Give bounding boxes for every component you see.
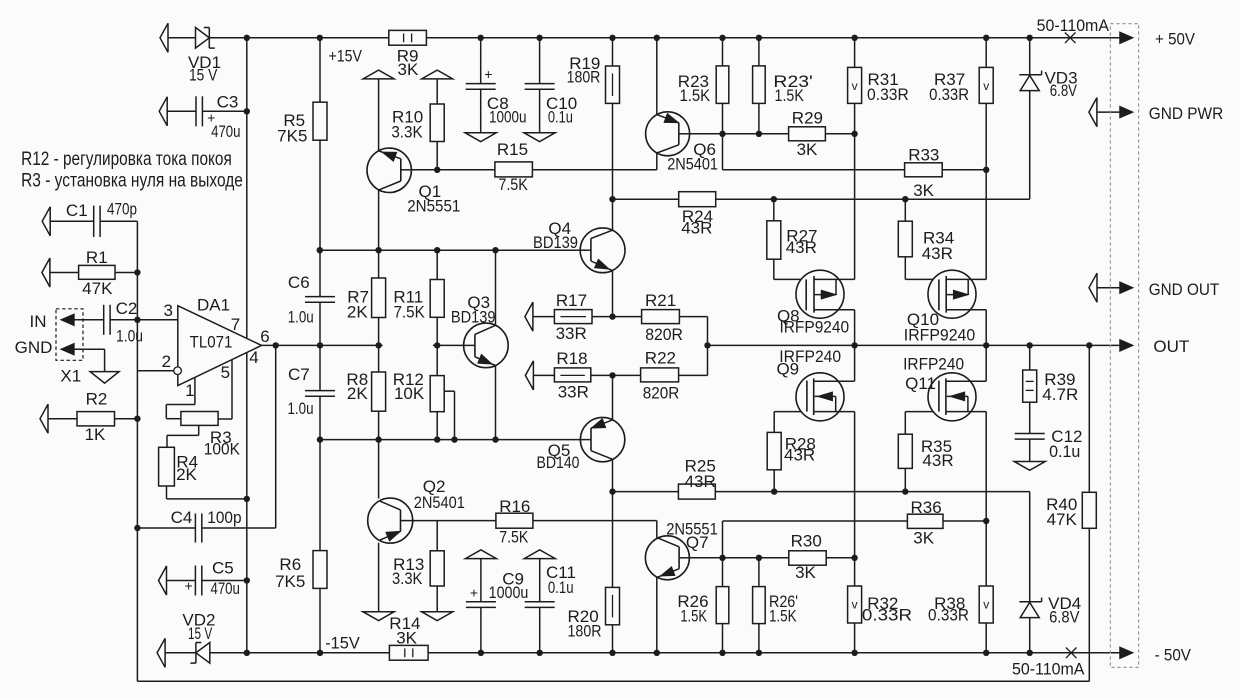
svg-text:v: v bbox=[852, 598, 858, 612]
junction dots bbox=[244, 35, 250, 41]
svg-text:7.5K: 7.5K bbox=[499, 527, 529, 546]
resistor R30 3K bbox=[789, 551, 826, 565]
wire: Q6 base down to gate drive line bbox=[722, 134, 724, 170]
ground symbol input bbox=[90, 372, 119, 384]
resistor R13 3.3K bbox=[430, 551, 444, 586]
transistor Q7 2N5551 bbox=[645, 536, 689, 580]
diode VD1 15V zener bbox=[196, 28, 210, 49]
resistor R16 7.5K bbox=[496, 513, 533, 528]
svg-text:DA1: DA1 bbox=[197, 295, 230, 314]
svg-text:1.5K: 1.5K bbox=[679, 86, 710, 105]
svg-text:470u: 470u bbox=[210, 579, 240, 598]
wire: R31 column to Q8 source bbox=[854, 38, 856, 68]
wire: R26p column bbox=[758, 558, 760, 587]
svg-text:7K5: 7K5 bbox=[277, 126, 307, 145]
svg-text:R18: R18 bbox=[556, 349, 587, 368]
wire: Q7 emitter to rail bbox=[656, 577, 658, 652]
wire: C8 column bbox=[480, 38, 482, 84]
connector arrow GND bbox=[62, 344, 74, 355]
wire: C1 row bbox=[50, 220, 94, 222]
wire: R13 column bbox=[436, 521, 438, 551]
resistor R38 0.33R bbox=[979, 586, 993, 623]
capacitor C11 0.1u bbox=[525, 601, 555, 603]
connector dashed box right bbox=[1110, 24, 1138, 668]
power arrow -15V at Q2 bbox=[363, 612, 394, 621]
capacitor C7 1.0u bbox=[305, 390, 335, 392]
wire: C4 to output bbox=[275, 345, 277, 528]
resistor R1 47K bbox=[79, 265, 115, 279]
svg-text:15 V: 15 V bbox=[188, 624, 213, 643]
resistor R39 4.7R bbox=[1023, 370, 1037, 402]
svg-text:3K: 3K bbox=[398, 60, 419, 79]
resistor R34 43R bbox=[898, 221, 912, 257]
svg-text:3.3K: 3.3K bbox=[392, 569, 423, 588]
svg-text:+: + bbox=[484, 66, 492, 82]
connector arrow OUT bbox=[1120, 340, 1132, 351]
svg-text:2K: 2K bbox=[347, 384, 368, 403]
ground arrow C12 bbox=[1014, 462, 1045, 471]
resistor R14 3K bbox=[389, 645, 428, 660]
svg-text:-15V: -15V bbox=[325, 633, 360, 652]
connector arrow C5 input bbox=[159, 566, 167, 595]
capacitor C6 1.0u bbox=[305, 296, 335, 298]
svg-text:v: v bbox=[983, 598, 989, 612]
svg-text:470u: 470u bbox=[211, 122, 240, 141]
resistor R9 3K bbox=[389, 30, 427, 45]
resistor R23 1.5K bbox=[716, 66, 729, 104]
svg-text:R29: R29 bbox=[792, 109, 823, 128]
wire: Q9 source to R30/R32 bbox=[854, 412, 856, 586]
svg-text:43R: 43R bbox=[786, 238, 817, 257]
wire: R37 column to Q10 source bbox=[985, 38, 987, 68]
wire: Q1 collector / R7 column bbox=[378, 190, 380, 278]
connector arrow GND PWR solid bbox=[1120, 107, 1132, 118]
resistor R22 820R bbox=[641, 368, 679, 382]
svg-text:1.0u: 1.0u bbox=[288, 399, 314, 418]
resistor R3 100K trimmer bbox=[181, 412, 218, 426]
svg-text:43R: 43R bbox=[922, 244, 953, 263]
wire: op-amp output rail bbox=[262, 344, 383, 346]
wire: R18 row bbox=[533, 374, 554, 376]
wire: feedback frame bottom and sides bbox=[136, 221, 138, 681]
svg-text:2: 2 bbox=[162, 352, 171, 371]
resistor R11 7.5K bbox=[430, 280, 444, 318]
capacitor C4 100p bbox=[194, 513, 196, 542]
svg-text:3K: 3K bbox=[797, 140, 818, 159]
resistor R25 43R bbox=[678, 484, 715, 499]
connector arrow VD2 input bbox=[157, 638, 165, 667]
svg-text:R1: R1 bbox=[86, 248, 108, 267]
test point X bottom rail bbox=[1066, 648, 1077, 659]
svg-text:43R: 43R bbox=[922, 451, 953, 470]
svg-text:43R: 43R bbox=[681, 219, 712, 238]
svg-text:0.1u: 0.1u bbox=[548, 578, 574, 597]
wire: IN to C2 to pin3 bbox=[74, 319, 104, 321]
svg-text:820R: 820R bbox=[645, 325, 683, 344]
power arrow C9 bbox=[465, 550, 496, 559]
transistor Q9 IRFP240 bbox=[796, 373, 844, 421]
wire: Q7 base row bbox=[690, 557, 789, 559]
svg-text:50-110mA: 50-110mA bbox=[1037, 16, 1110, 35]
transistor Q10 IRFP9240 bbox=[928, 270, 976, 318]
ground arrow C10 bbox=[524, 133, 555, 142]
svg-text:1: 1 bbox=[185, 381, 194, 400]
wire: Q11 drain to OUT bbox=[985, 345, 987, 381]
svg-text:820R: 820R bbox=[643, 383, 680, 402]
resistor R21 820R bbox=[642, 310, 680, 324]
wire: C10 column bbox=[539, 38, 541, 84]
capacitor C5 470u bbox=[194, 566, 196, 596]
power arrow +15V at Q1 bbox=[363, 70, 394, 79]
wire: R40 column bbox=[1088, 345, 1090, 492]
resistor R2 1K bbox=[77, 412, 115, 426]
wire: Q6 base row bbox=[690, 133, 789, 135]
svg-text:+: + bbox=[185, 578, 193, 594]
wire: bottom gate rail bbox=[613, 491, 679, 493]
svg-text:2N5401: 2N5401 bbox=[667, 154, 718, 173]
svg-text:BD140: BD140 bbox=[537, 453, 580, 472]
wire: power arrow stem to R10 bbox=[436, 79, 438, 104]
wire: R17 row bbox=[533, 316, 555, 318]
capacitor C1 470p bbox=[93, 206, 95, 237]
wire: R5-C6-C7-R6 vertical bbox=[319, 38, 321, 102]
connector arrow C1 input bbox=[42, 207, 50, 236]
wire: R11/R12 junction to Q3 base bbox=[433, 344, 464, 346]
connector arrow GND OUT open bbox=[1089, 273, 1097, 302]
wire: VD4 column bbox=[1029, 492, 1031, 602]
svg-text:33R: 33R bbox=[556, 324, 587, 343]
svg-text:v: v bbox=[852, 79, 858, 93]
svg-text:C5: C5 bbox=[212, 559, 234, 578]
wire: R22 row to output node bbox=[613, 374, 641, 376]
wire: Q2 base to R16 bbox=[401, 520, 496, 522]
wire: C4 row bbox=[137, 527, 195, 529]
svg-text:R22: R22 bbox=[645, 348, 676, 367]
resistor R29 3K bbox=[789, 127, 826, 141]
svg-text:R15: R15 bbox=[497, 140, 528, 159]
svg-text:100K: 100K bbox=[204, 440, 241, 459]
svg-text:+15V: +15V bbox=[328, 47, 362, 66]
svg-text:1.5K: 1.5K bbox=[775, 86, 805, 105]
connector arrow IN bbox=[62, 314, 74, 325]
svg-text:R30: R30 bbox=[791, 532, 822, 551]
capacitor C3 470u bbox=[195, 96, 197, 126]
wire: R10 to Q1 base node bbox=[436, 142, 438, 170]
svg-text:0.1u: 0.1u bbox=[548, 108, 573, 127]
svg-text:+: + bbox=[470, 584, 478, 600]
svg-text:GND OUT: GND OUT bbox=[1149, 280, 1220, 299]
svg-text:6: 6 bbox=[260, 327, 269, 346]
resistor R23p 1.5K bbox=[753, 66, 766, 104]
connector X1 dashed box bbox=[56, 309, 83, 361]
wire: C3 row bbox=[167, 110, 196, 112]
capacitor C2 1.0u bbox=[103, 305, 105, 335]
svg-text:4.7R: 4.7R bbox=[1042, 385, 1078, 404]
svg-text:R16: R16 bbox=[499, 497, 530, 516]
resistor R20 180R bbox=[606, 587, 620, 624]
transistor Q3 BD139 bbox=[464, 323, 509, 368]
diode VD3 6.8V zener bbox=[1019, 74, 1041, 76]
svg-text:0.33R: 0.33R bbox=[867, 85, 909, 104]
transistor Q6 2N5401 bbox=[646, 112, 690, 156]
svg-text:1.0u: 1.0u bbox=[116, 326, 143, 345]
svg-text:GND: GND bbox=[15, 338, 53, 357]
capacitor C8 1000u bbox=[466, 83, 496, 85]
wire: -15V bias rail bbox=[320, 439, 591, 441]
wire: Q1 base to R15 bbox=[401, 169, 495, 171]
svg-text:3K: 3K bbox=[795, 563, 816, 582]
connector arrow R1 input bbox=[42, 258, 50, 287]
wire: Q3 collector bbox=[495, 250, 497, 325]
svg-text:2K: 2K bbox=[176, 465, 197, 484]
svg-text:0.1u: 0.1u bbox=[1049, 442, 1080, 461]
resistor R17 33R bbox=[554, 310, 592, 324]
svg-text:IRFP9240: IRFP9240 bbox=[904, 326, 975, 345]
svg-text:47K: 47K bbox=[82, 279, 113, 298]
resistor R4 2K bbox=[159, 447, 175, 486]
ground arrow C8 bbox=[465, 133, 496, 142]
connector arrow GND OUT solid bbox=[1120, 282, 1132, 293]
svg-text:X1: X1 bbox=[60, 367, 81, 386]
transistor Q4 BD139 bbox=[580, 228, 625, 273]
svg-text:IN: IN bbox=[30, 312, 47, 331]
svg-text:- 50V: - 50V bbox=[1155, 646, 1192, 665]
resistor R12 10K trimmer bbox=[430, 376, 444, 412]
svg-text:0.33R: 0.33R bbox=[862, 605, 912, 624]
svg-text:7.5K: 7.5K bbox=[393, 303, 425, 322]
svg-text:3K: 3K bbox=[913, 181, 934, 200]
wire: Q11 source to R36/R38 bbox=[985, 412, 987, 586]
svg-text:R2: R2 bbox=[86, 390, 108, 409]
resistor R24 43R bbox=[679, 192, 716, 207]
transistor Q8 IRFP9240 bbox=[796, 270, 844, 318]
svg-text:47K: 47K bbox=[1047, 510, 1078, 529]
resistor R26p 1.5K bbox=[753, 587, 766, 624]
wire: Q6 emitter from rail bbox=[656, 38, 658, 115]
wire: GND PWR stub bbox=[1097, 111, 1120, 113]
wire: C11 column bbox=[539, 559, 541, 602]
svg-text:BD139: BD139 bbox=[451, 307, 496, 326]
wire: Q2 collector and emitter column bbox=[378, 440, 380, 499]
wire: R34 to Q10 gate bbox=[904, 199, 906, 221]
wire: R4 bottom to pin4 line bbox=[166, 486, 168, 499]
connector arrow R2 input bbox=[40, 404, 48, 433]
connector arrow C3 input bbox=[159, 97, 167, 126]
power arrow C11 bbox=[524, 550, 555, 559]
svg-text:2N5401: 2N5401 bbox=[414, 493, 465, 512]
svg-text:50-110mA: 50-110mA bbox=[1012, 660, 1085, 679]
diode VD4 6.8V zener bbox=[1019, 601, 1041, 603]
svg-text:2N5551: 2N5551 bbox=[666, 519, 718, 538]
resistor R32 0.33R bbox=[848, 586, 862, 623]
resistor R8 2K bbox=[372, 372, 386, 411]
connector arrow R18 bbox=[525, 361, 533, 390]
svg-text:7K5: 7K5 bbox=[275, 572, 305, 591]
svg-text:1.0u: 1.0u bbox=[288, 307, 314, 326]
connector arrow R17 bbox=[525, 302, 533, 331]
wire: R16 to Q7 collector bbox=[533, 520, 657, 522]
wire: Q5 emitter to R18 node bbox=[612, 375, 614, 420]
resistor R15 7.5K bbox=[495, 162, 533, 177]
transistor Q5 BD140 bbox=[580, 417, 624, 461]
wire: pin2 inverting input bbox=[137, 370, 173, 372]
capacitor C9 1000u bbox=[466, 601, 496, 603]
svg-text:v: v bbox=[983, 79, 989, 93]
wire: -50V bottom rail bbox=[165, 652, 196, 654]
wire: OUT rail bbox=[708, 344, 1121, 346]
connector arrow VD1 input bbox=[160, 23, 168, 52]
wire: Q7 base up to gate drive line bbox=[722, 521, 724, 558]
svg-text:R36: R36 bbox=[911, 498, 942, 517]
svg-text:R17: R17 bbox=[556, 291, 587, 310]
wire: R39/C12 column bbox=[1029, 345, 1031, 370]
wire: Q5 collector / R20 column bbox=[612, 459, 614, 587]
svg-text:R33: R33 bbox=[908, 145, 939, 164]
svg-text:TL071: TL071 bbox=[190, 332, 233, 351]
wire: R12 column bbox=[436, 345, 438, 375]
wire: GND stub to ground bbox=[74, 348, 105, 350]
wire: R23 column bbox=[722, 38, 724, 66]
svg-text:IRFP240: IRFP240 bbox=[903, 355, 964, 374]
test point X top rail bbox=[1065, 33, 1076, 44]
svg-text:180R: 180R bbox=[567, 68, 601, 87]
wire: +50V top rail bbox=[168, 37, 196, 39]
capacitor C12 0.1u bbox=[1015, 433, 1045, 435]
svg-text:6.8V: 6.8V bbox=[1050, 81, 1078, 100]
wire: C9 column bbox=[480, 559, 482, 602]
wire: R3 wiper to R4 bbox=[198, 425, 200, 435]
svg-text:3K: 3K bbox=[396, 629, 417, 648]
resistor R31 0.33R bbox=[848, 67, 862, 103]
wire: R15 to Q6 collector bbox=[532, 169, 656, 171]
svg-text:3: 3 bbox=[163, 301, 172, 320]
svg-text:3K: 3K bbox=[913, 529, 934, 548]
svg-text:180R: 180R bbox=[568, 622, 602, 641]
svg-text:R3 - установка нуля на выходе: R3 - установка нуля на выходе bbox=[21, 169, 243, 191]
svg-text:33R: 33R bbox=[558, 383, 589, 402]
svg-text:1K: 1K bbox=[85, 425, 106, 444]
wire: R19 column / Q4 collector bbox=[612, 38, 614, 66]
wire: R27 to Q8 gate bbox=[773, 199, 775, 221]
svg-text:43R: 43R bbox=[685, 472, 716, 491]
wire: +15V bias rail bbox=[320, 249, 581, 251]
svg-text:10K: 10K bbox=[394, 384, 425, 403]
transistor Q11 IRFP240 bbox=[928, 373, 976, 421]
wire: R12 wiper bbox=[444, 390, 454, 392]
resistor R5 7K5 bbox=[313, 102, 327, 140]
wire: R21 row to output node bbox=[613, 316, 642, 318]
svg-text:5: 5 bbox=[221, 363, 230, 382]
svg-text:6.8V: 6.8V bbox=[1049, 607, 1080, 626]
svg-text:0.33R: 0.33R bbox=[928, 605, 969, 624]
svg-text:1000u: 1000u bbox=[489, 583, 529, 602]
svg-text:15 V: 15 V bbox=[189, 66, 218, 85]
svg-text:1000u: 1000u bbox=[489, 108, 527, 127]
wire: GND OUT stub bbox=[1097, 287, 1120, 289]
capacitor C10 0.1u bbox=[525, 83, 555, 85]
wire: Q8 drain to OUT bbox=[854, 310, 856, 346]
wire: VD3 column bbox=[1029, 38, 1031, 75]
resistor R36 3K bbox=[907, 514, 943, 528]
resistor R10 3.3K bbox=[430, 104, 444, 142]
svg-text:C2: C2 bbox=[116, 299, 138, 318]
svg-text:4: 4 bbox=[249, 348, 258, 367]
svg-text:+: + bbox=[207, 110, 215, 126]
wire: R1 row bbox=[50, 272, 79, 274]
power arrow -15V at R13 bbox=[422, 612, 453, 621]
connector arrow +50V bbox=[1120, 32, 1132, 43]
svg-text:1.5K: 1.5K bbox=[680, 606, 707, 625]
svg-text:OUT: OUT bbox=[1153, 337, 1189, 356]
resistor R33 3K bbox=[905, 163, 943, 177]
svg-text:7: 7 bbox=[231, 315, 240, 334]
svg-text:C1: C1 bbox=[66, 201, 88, 220]
svg-text:+ 50V: + 50V bbox=[1155, 30, 1195, 49]
diode VD2 15V zener bbox=[196, 643, 210, 664]
resistor R26 1.5K bbox=[716, 587, 729, 624]
svg-text:C7: C7 bbox=[288, 365, 310, 384]
power arrow +15V at R10 bbox=[422, 70, 453, 79]
wire: R26 column bbox=[722, 558, 724, 587]
svg-text:IRFP9240: IRFP9240 bbox=[779, 318, 849, 337]
wire: Q9 drain to OUT bbox=[854, 345, 856, 381]
wire: Q10 drain to OUT bbox=[985, 310, 987, 346]
connector arrow GND PWR open bbox=[1089, 98, 1097, 127]
wire: top gate rail bbox=[613, 198, 679, 200]
svg-text:GND PWR: GND PWR bbox=[1149, 104, 1224, 123]
wire: pin5 offset null bbox=[231, 360, 233, 420]
wire: power arrow stem to Q1 emitter bbox=[378, 79, 380, 151]
op-amp inverting input bubble bbox=[174, 367, 182, 375]
wire: R11 column bbox=[436, 250, 438, 279]
connector arrow -50V bbox=[1120, 647, 1132, 658]
wire: C5 row bbox=[166, 580, 195, 582]
wire: R35 to Q11 gate bbox=[904, 468, 906, 491]
svg-text:1.5K: 1.5K bbox=[769, 606, 797, 625]
svg-text:R21: R21 bbox=[645, 291, 676, 310]
wire: VD1/C3/pin7 vertical bbox=[246, 38, 248, 339]
svg-text:C6: C6 bbox=[288, 273, 310, 292]
svg-text:C3: C3 bbox=[217, 92, 239, 111]
wire: pin1 offset null bbox=[194, 378, 196, 405]
svg-text:100p: 100p bbox=[207, 508, 241, 527]
svg-text:IRFP240: IRFP240 bbox=[779, 347, 841, 366]
transistor Q2 2N5401 bbox=[368, 498, 413, 543]
resistor R7 2K bbox=[372, 278, 386, 318]
svg-text:2K: 2K bbox=[347, 303, 368, 322]
resistor R18 33R bbox=[554, 368, 590, 382]
resistor R6 7K5 bbox=[313, 551, 327, 589]
svg-text:C4: C4 bbox=[171, 508, 193, 527]
svg-text:43R: 43R bbox=[784, 446, 815, 465]
transistor Q1 2N5551 bbox=[367, 148, 411, 192]
op-amp DA1 TL071 bbox=[178, 306, 262, 386]
svg-text:7.5K: 7.5K bbox=[498, 175, 528, 194]
resistor R19 180R bbox=[606, 66, 620, 103]
svg-text:470p: 470p bbox=[107, 200, 137, 219]
resistor R27 43R bbox=[767, 221, 781, 259]
resistor R28 43R bbox=[767, 432, 781, 469]
resistor R37 0.33R bbox=[979, 67, 993, 103]
svg-text:R12 - регулировка тока покоя: R12 - регулировка тока покоя bbox=[21, 148, 232, 170]
wire: Q3 emitter bbox=[495, 366, 497, 440]
svg-text:3.3K: 3.3K bbox=[391, 123, 423, 142]
wire: Q4 emitter to R17 node bbox=[612, 271, 614, 317]
wire: R28 to Q9 gate bbox=[773, 470, 775, 492]
resistor R40 47K bbox=[1082, 492, 1096, 528]
svg-text:BD139: BD139 bbox=[533, 233, 578, 252]
resistor R35 43R bbox=[898, 434, 912, 468]
